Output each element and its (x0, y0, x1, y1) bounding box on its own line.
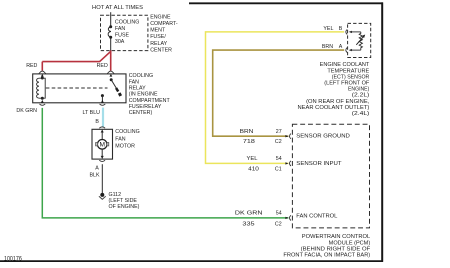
svg-text:FRONT FACIA, ON IMPACT BAR): FRONT FACIA, ON IMPACT BAR) (283, 253, 370, 259)
wire RED to relay left pin (41, 62, 43, 71)
svg-text:(ON REAR OF ENGINE,: (ON REAR OF ENGINE, (306, 99, 369, 105)
pin connector motor B (99, 127, 105, 133)
svg-text:(2.2L): (2.2L) (352, 93, 370, 99)
svg-text:100176: 100176 (4, 257, 22, 263)
fuse COOLING FAN FUSE 30A (108, 25, 112, 39)
label COOLING FAN MOTOR (115, 129, 139, 150)
label COOLING FAN FUSE 30A (115, 19, 139, 44)
svg-text:B: B (95, 119, 99, 125)
svg-text:335: 335 (242, 222, 254, 228)
svg-text:NEAR COOLANT OUTLET): NEAR COOLANT OUTLET) (298, 105, 370, 111)
svg-text:(IN ENGINE: (IN ENGINE (129, 92, 158, 98)
pin connector sensor A (346, 48, 361, 53)
wire RED horizontal (42, 61, 100, 63)
svg-text:FUSE/: FUSE/ (150, 34, 166, 40)
svg-text:LT BLU: LT BLU (83, 110, 101, 116)
pin connector motor A (99, 160, 105, 161)
svg-text:ENGINE: ENGINE (150, 15, 171, 21)
svg-text:SENSOR INPUT: SENSOR INPUT (296, 161, 342, 167)
svg-text:COMPART-: COMPART- (150, 21, 178, 27)
svg-text:54: 54 (276, 156, 282, 162)
wire BLK motor to ground (101, 164, 103, 193)
svg-text:ENGINE): ENGINE) (348, 87, 370, 93)
svg-text:B: B (339, 26, 343, 32)
svg-text:C1: C1 (275, 167, 282, 173)
svg-text:DK GRN: DK GRN (235, 210, 263, 216)
svg-text:(2.4L): (2.4L) (352, 111, 370, 117)
svg-text:RED: RED (97, 63, 108, 69)
svg-text:RED: RED (26, 63, 37, 69)
pin connector sensor B (346, 29, 361, 34)
svg-text:C2: C2 (275, 222, 282, 228)
svg-text:COOLING: COOLING (115, 19, 139, 25)
label COOLING FAN RELAY (IN ENGINE COMPARTMENT FUSE/RELAY CENTER) (129, 73, 171, 116)
svg-text:FUSE/RELAY: FUSE/RELAY (129, 104, 162, 110)
pin connector relay top-right (107, 71, 114, 77)
wire BRN sensor to PCM (213, 50, 345, 136)
svg-text:ENGINE COOLANT: ENGINE COOLANT (320, 62, 370, 68)
wire RED fuse to relay right pin (110, 50, 112, 70)
wire RED branch diagonal (100, 51, 111, 61)
pin connector PCM 54 C1 (285, 161, 291, 166)
svg-text:FUSE: FUSE (115, 33, 130, 39)
svg-text:BLK: BLK (90, 172, 100, 178)
svg-text:POWERTRAIN CONTROL: POWERTRAIN CONTROL (302, 234, 370, 240)
wire RED below fuse (110, 38, 112, 50)
svg-text:RELAY: RELAY (150, 41, 167, 47)
wire fuse feed (110, 12, 112, 26)
svg-text:54: 54 (276, 210, 282, 216)
cooling fan motor M (96, 132, 109, 159)
svg-text:FAN: FAN (129, 79, 139, 85)
pin connector PCM 54 C2 (285, 215, 291, 220)
svg-text:(BEHIND RIGHT SIDE OF: (BEHIND RIGHT SIDE OF (301, 246, 371, 252)
svg-text:BRN: BRN (240, 129, 254, 135)
svg-text:MOTOR: MOTOR (115, 144, 135, 150)
relay switch blade (110, 78, 121, 96)
pin connector PCM 27 C2 (285, 134, 291, 139)
svg-text:MODULE (PCM): MODULE (PCM) (329, 240, 371, 246)
svg-text:COOLING: COOLING (115, 129, 139, 135)
pin connector relay bottom-left (39, 100, 45, 105)
svg-text:(LEFT FRONT OF: (LEFT FRONT OF (324, 81, 370, 87)
frame right border (381, 2, 383, 262)
pin connector relay bottom-middle (100, 100, 106, 105)
svg-text:DK GRN: DK GRN (16, 108, 37, 114)
wire YEL sensor to PCM (206, 32, 345, 164)
svg-text:YEL: YEL (323, 26, 333, 32)
svg-text:COMPARTMENT: COMPARTMENT (129, 98, 171, 104)
thermistor (ECT sensor element) (356, 32, 365, 50)
svg-text:(LEFT SIDE: (LEFT SIDE (109, 198, 138, 204)
svg-text:A: A (339, 44, 343, 50)
svg-text:BRN: BRN (322, 44, 333, 50)
svg-text:YEL: YEL (247, 156, 258, 162)
relay box (cooling fan relay) (33, 74, 126, 103)
wire LT BLU relay to motor (102, 108, 104, 128)
label POWERTRAIN CONTROL MODULE (PCM) block (283, 234, 371, 258)
motor box (92, 129, 113, 159)
svg-text:(ECT) SENSOR: (ECT) SENSOR (332, 74, 370, 80)
svg-text:FAN CONTROL: FAN CONTROL (296, 213, 337, 219)
svg-text:30A: 30A (115, 39, 125, 45)
fuse box (engine compartment fuse/relay center) dashed (101, 15, 148, 50)
pin connector relay top-left (39, 71, 46, 77)
svg-text:27: 27 (276, 129, 282, 135)
svg-text:CENTER: CENTER (150, 47, 172, 53)
svg-text:TEMPERATURE: TEMPERATURE (327, 68, 369, 74)
PCM box dashed (292, 124, 369, 228)
svg-text:FAN: FAN (115, 26, 125, 32)
label ENGINE COMPARTMENT FUSE/RELAY CENTER (150, 15, 178, 54)
relay switch fixed contact (101, 94, 104, 103)
svg-text:MENT: MENT (150, 28, 166, 34)
svg-text:HOT AT ALL TIMES: HOT AT ALL TIMES (92, 5, 144, 11)
label (LEFT SIDE OF ENGINE) (109, 198, 140, 210)
svg-text:410: 410 (248, 167, 259, 173)
label ENGINE COOLANT TEMPERATURE (ECT) SENSOR block (298, 62, 371, 117)
svg-text:OF ENGINE): OF ENGINE) (109, 204, 140, 210)
svg-text:COOLING: COOLING (129, 73, 153, 79)
relay actuator dashed link (46, 87, 108, 89)
svg-text:SENSOR GROUND: SENSOR GROUND (296, 133, 350, 139)
ground G112 (99, 193, 106, 199)
wire DK GRN relay to PCM (42, 108, 288, 218)
frame top border (189, 2, 383, 4)
relay coil (37, 77, 46, 100)
svg-text:C2: C2 (275, 139, 282, 145)
svg-text:CENTER): CENTER) (129, 110, 153, 116)
svg-text:RELAY: RELAY (129, 86, 146, 92)
svg-text:718: 718 (243, 139, 255, 145)
svg-text:G112: G112 (109, 192, 122, 198)
frame bottom border (0, 260, 383, 262)
svg-text:FAN: FAN (115, 136, 125, 142)
svg-text:A: A (95, 165, 99, 171)
ECT sensor box dashed (348, 23, 371, 57)
svg-text:M: M (99, 142, 105, 149)
